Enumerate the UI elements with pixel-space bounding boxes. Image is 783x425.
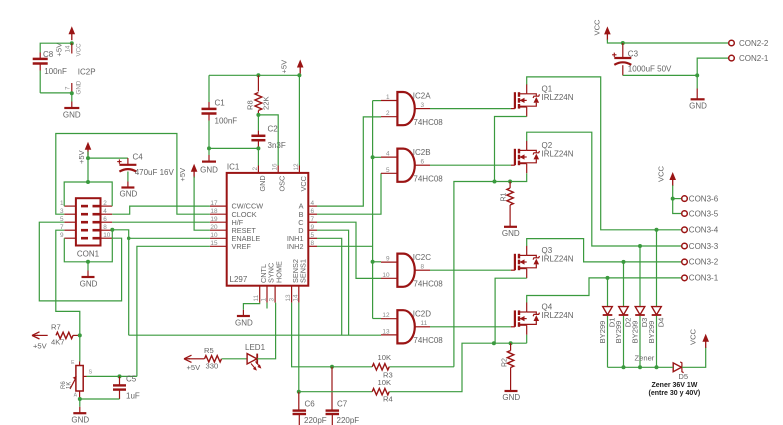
svg-text:470uF 16V: 470uF 16V: [135, 168, 175, 177]
svg-text:CON3-3: CON3-3: [689, 242, 719, 251]
svg-text:IC2C: IC2C: [413, 253, 431, 262]
svg-text:220pF: 220pF: [337, 416, 360, 425]
svg-text:INH2: INH2: [287, 242, 304, 251]
svg-text:R7: R7: [51, 323, 61, 332]
svg-text:2: 2: [386, 110, 390, 117]
svg-text:OSC: OSC: [278, 176, 287, 192]
svg-text:17: 17: [210, 200, 218, 207]
svg-text:C6: C6: [305, 400, 316, 409]
svg-text:11: 11: [253, 294, 260, 301]
svg-text:8: 8: [103, 224, 107, 231]
svg-text:9: 9: [311, 224, 315, 231]
svg-text:CON3-5: CON3-5: [689, 209, 719, 218]
svg-text:BY299: BY299: [631, 321, 640, 344]
svg-text:10: 10: [382, 272, 390, 279]
svg-text:4: 4: [103, 208, 107, 215]
svg-text:BY299: BY299: [647, 321, 656, 344]
svg-text:GND: GND: [502, 229, 520, 238]
svg-text:4: 4: [311, 200, 315, 207]
svg-text:+5V: +5V: [280, 59, 289, 74]
svg-text:C5: C5: [126, 375, 137, 384]
svg-text:12: 12: [293, 163, 300, 171]
svg-text:+5V: +5V: [187, 363, 202, 372]
svg-text:IC2D: IC2D: [413, 310, 431, 319]
svg-text:6: 6: [421, 159, 425, 166]
svg-text:GND: GND: [63, 111, 81, 120]
svg-text:2: 2: [103, 200, 107, 207]
svg-text:9: 9: [386, 256, 390, 263]
svg-text:7: 7: [65, 86, 72, 90]
svg-text:SENS1: SENS1: [298, 259, 307, 283]
svg-text:74HC08: 74HC08: [413, 279, 443, 288]
svg-text:74HC08: 74HC08: [413, 118, 443, 127]
svg-text:D5: D5: [678, 372, 688, 381]
svg-text:12: 12: [382, 312, 390, 319]
svg-text:GND: GND: [235, 319, 253, 328]
svg-text:R8: R8: [246, 100, 255, 110]
svg-text:18: 18: [210, 208, 218, 215]
svg-text:C2: C2: [268, 125, 279, 134]
svg-text:+5V: +5V: [55, 42, 64, 57]
svg-text:VCC: VCC: [299, 176, 308, 191]
svg-text:74HC08: 74HC08: [413, 336, 443, 345]
svg-text:GND: GND: [80, 280, 98, 289]
svg-text:C8: C8: [43, 50, 54, 59]
svg-text:CON3-2: CON3-2: [689, 258, 719, 267]
svg-text:74HC08: 74HC08: [413, 174, 443, 183]
svg-text:HOME: HOME: [275, 261, 284, 283]
svg-text:C4: C4: [133, 153, 144, 162]
svg-text:IRLZ24N: IRLZ24N: [542, 255, 574, 264]
svg-text:GND: GND: [76, 80, 83, 94]
svg-text:14: 14: [292, 294, 299, 302]
svg-text:R5: R5: [204, 346, 214, 355]
svg-text:100nF: 100nF: [44, 67, 67, 76]
svg-text:6: 6: [103, 216, 107, 223]
svg-text:4K7: 4K7: [51, 338, 65, 347]
svg-text:1: 1: [386, 94, 390, 101]
svg-text:1: 1: [261, 298, 268, 302]
svg-text:16: 16: [272, 163, 279, 171]
svg-text:VCC: VCC: [593, 19, 602, 36]
svg-text:19: 19: [210, 216, 218, 223]
svg-text:10: 10: [210, 232, 218, 239]
svg-text:7: 7: [311, 216, 315, 223]
svg-text:IRLZ24N: IRLZ24N: [542, 150, 574, 159]
svg-text:C3: C3: [628, 50, 639, 59]
svg-text:+5V: +5V: [33, 342, 48, 351]
svg-text:R1: R1: [501, 192, 508, 201]
svg-text:220pF: 220pF: [304, 416, 327, 425]
svg-text:3: 3: [269, 298, 276, 302]
svg-text:R2: R2: [502, 358, 509, 367]
svg-text:Zener 36V 1W: Zener 36V 1W: [652, 382, 698, 389]
svg-text:3: 3: [421, 102, 425, 109]
svg-text:3n3F: 3n3F: [268, 141, 286, 150]
svg-text:GND: GND: [502, 393, 520, 402]
svg-text:14: 14: [65, 45, 72, 52]
svg-text:VCC: VCC: [689, 328, 698, 345]
svg-text:13: 13: [285, 294, 292, 302]
svg-text:22K: 22K: [262, 96, 271, 110]
svg-text:8: 8: [421, 264, 425, 271]
svg-text:VCC: VCC: [657, 165, 666, 182]
svg-text:IC1: IC1: [227, 163, 240, 172]
svg-text:VREF: VREF: [232, 242, 252, 251]
svg-text:GND: GND: [200, 166, 218, 175]
svg-text:20: 20: [210, 224, 218, 231]
svg-text:BY299: BY299: [614, 321, 623, 344]
svg-text:8: 8: [311, 240, 315, 247]
svg-text:IC2P: IC2P: [78, 68, 96, 77]
svg-text:CON3-4: CON3-4: [689, 226, 719, 235]
svg-text:CON1: CON1: [77, 250, 100, 259]
svg-text:GND: GND: [120, 190, 138, 199]
svg-text:100nF: 100nF: [215, 117, 238, 126]
svg-text:C1: C1: [215, 99, 226, 108]
svg-text:+5V: +5V: [178, 167, 187, 182]
svg-text:1000uF 50V: 1000uF 50V: [628, 65, 672, 74]
svg-text:LED1: LED1: [245, 343, 266, 352]
svg-text:Zener: Zener: [635, 354, 655, 363]
svg-text:11: 11: [421, 320, 428, 327]
svg-text:GND: GND: [71, 416, 89, 425]
svg-text:CON2-2: CON2-2: [739, 39, 769, 48]
svg-text:CON2-1: CON2-1: [739, 54, 769, 63]
svg-text:L297: L297: [230, 275, 248, 284]
svg-text:BY299: BY299: [598, 321, 607, 344]
svg-text:5: 5: [311, 232, 315, 239]
svg-text:GND: GND: [258, 175, 267, 191]
svg-text:10K: 10K: [378, 353, 392, 362]
svg-text:GND: GND: [689, 102, 707, 111]
svg-text:C7: C7: [337, 400, 348, 409]
svg-text:10K: 10K: [378, 378, 392, 387]
svg-text:(entre 30 y 40V): (entre 30 y 40V): [649, 390, 701, 397]
svg-text:S: S: [89, 370, 93, 376]
svg-text:2: 2: [252, 167, 259, 171]
svg-text:10: 10: [103, 232, 111, 239]
svg-text:9: 9: [60, 232, 64, 239]
svg-text:5: 5: [386, 167, 390, 174]
svg-text:IC2A: IC2A: [413, 91, 431, 100]
svg-text:6: 6: [311, 208, 315, 215]
svg-text:IC2B: IC2B: [413, 148, 431, 157]
svg-text:1K: 1K: [67, 382, 73, 389]
svg-text:VCC: VCC: [76, 43, 83, 57]
svg-text:+5V: +5V: [77, 149, 86, 164]
svg-text:15: 15: [210, 240, 218, 247]
svg-text:R4: R4: [383, 395, 393, 404]
svg-text:CON3-6: CON3-6: [689, 194, 719, 203]
svg-text:13: 13: [382, 328, 390, 335]
svg-text:D4: D4: [656, 318, 665, 328]
svg-text:IRLZ24N: IRLZ24N: [542, 93, 574, 102]
svg-text:330: 330: [206, 362, 219, 371]
svg-text:IRLZ24N: IRLZ24N: [542, 311, 574, 320]
svg-text:CON3-1: CON3-1: [689, 274, 719, 283]
svg-text:1uF: 1uF: [126, 392, 140, 401]
svg-text:1: 1: [60, 200, 64, 207]
svg-text:4: 4: [386, 151, 390, 158]
